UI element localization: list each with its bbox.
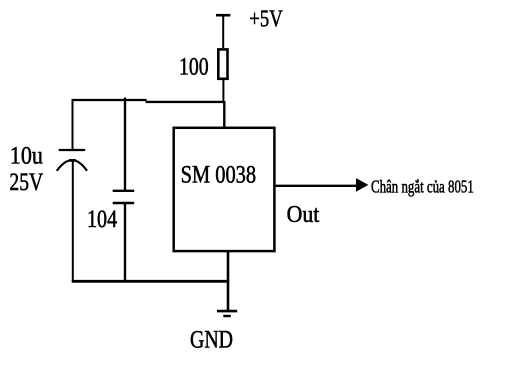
svg-text:SM 0038: SM 0038 [181,162,257,189]
svg-text:25V: 25V [9,169,43,196]
svg-text:104: 104 [87,206,118,233]
svg-text:+5V: +5V [249,6,283,32]
svg-text:10u: 10u [10,143,44,170]
svg-text:100: 100 [179,53,209,80]
svg-text:Out: Out [287,202,320,228]
svg-text:GND: GND [190,326,233,353]
svg-text:Chân ngắt của 8051: Chân ngắt của 8051 [371,176,474,196]
